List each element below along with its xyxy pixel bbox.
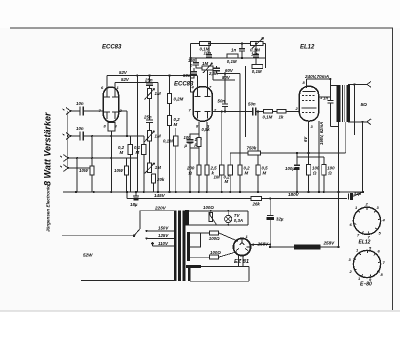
svg-text:1M: 1M	[202, 61, 208, 66]
svg-text:100Ω: 100Ω	[210, 250, 221, 255]
resistor R7 0,2M pair left	[118, 144, 132, 155]
input jack J2	[63, 133, 71, 140]
junction dots misc	[67, 42, 356, 248]
output transformer T2 primary bar	[337, 85, 341, 122]
mains wire	[62, 235, 134, 237]
svg-text:60V: 60V	[225, 68, 234, 73]
svg-text:26k: 26k	[252, 202, 261, 207]
switch S1	[133, 229, 140, 237]
resistor R2 10W	[114, 166, 129, 175]
svg-text:EZ 81: EZ 81	[234, 259, 249, 265]
svg-text:100Ω: 100Ω	[203, 205, 214, 210]
svg-text:M: M	[225, 179, 229, 184]
V3 grid dashes row1	[302, 95, 315, 97]
svg-text:180V: 180V	[288, 192, 300, 197]
wire V1 pin2 to node	[119, 110, 127, 112]
wire speaker bottom	[348, 121, 367, 123]
capacitor C18 32u second	[348, 191, 364, 200]
svg-text:110V: 110V	[158, 241, 169, 246]
wire C13 to C19	[225, 111, 253, 113]
wire 52V run lower	[115, 82, 158, 84]
svg-text:20k: 20k	[156, 177, 165, 182]
wire V2 pin4 heater	[197, 76, 199, 90]
wire R6 top	[175, 128, 177, 136]
svg-text:10n: 10n	[251, 52, 259, 57]
wire rail stub	[126, 192, 128, 198]
svg-text:M: M	[263, 171, 267, 176]
T1 tap 110V	[151, 241, 174, 246]
wire R1 column upper	[91, 136, 93, 166]
wire 60V node	[217, 68, 240, 74]
tone network top rail	[191, 43, 266, 45]
capacitor C3 18u	[130, 192, 139, 207]
svg-text:32µ: 32µ	[276, 217, 284, 222]
border top	[10, 27, 393, 29]
wire 240V run	[307, 78, 331, 80]
socket diagram EZ80	[349, 246, 386, 283]
wire R21 to V3	[286, 111, 299, 113]
junction dots jack tips	[67, 110, 72, 169]
wire R4 bottom	[169, 104, 171, 116]
capacitor C2 10n	[76, 126, 84, 141]
resistor R6 0,1M	[163, 136, 178, 146]
potentiometer P2 1M	[145, 131, 161, 142]
wire to choke	[270, 246, 294, 248]
V1 upper triode anode	[104, 90, 118, 97]
wire R5 down to bus	[169, 126, 171, 192]
T2 secondary bar	[346, 85, 350, 122]
svg-text:100µ: 100µ	[285, 166, 295, 171]
wire V2 pin3 down	[206, 122, 208, 165]
input jack J4	[60, 165, 68, 172]
resistor R26 26k dropper	[251, 197, 262, 207]
svg-text:10n: 10n	[76, 126, 84, 131]
capacitor C15 1n	[323, 96, 333, 127]
tube V2 ECC83 envelope	[193, 87, 212, 122]
socket diagram EL12	[350, 202, 386, 240]
wire J1 to V1 grid	[71, 110, 81, 112]
resistor R16 0,2M a	[224, 153, 233, 192]
V2 pin labels	[189, 85, 218, 129]
wire HV right link	[247, 211, 249, 225]
svg-text:195V, 62mA: 195V, 62mA	[319, 122, 324, 145]
svg-text:M: M	[245, 171, 249, 176]
svg-text:10W: 10W	[79, 168, 89, 173]
wire rect top	[190, 232, 209, 234]
wire V2 pin2 to C13	[212, 111, 225, 113]
speaker jack bottom	[367, 119, 371, 125]
wire V3 anode up	[306, 79, 308, 88]
potentiometer P5 1M bass	[202, 61, 213, 73]
capacitor C4 25n upper	[144, 76, 153, 89]
resistor R13 200R	[186, 165, 201, 176]
wire choke to B+ riser	[321, 246, 339, 248]
wire x158 vertical	[157, 83, 159, 193]
svg-text:268V: 268V	[257, 242, 270, 247]
resistor R10 0,1M mid	[227, 54, 238, 64]
T2 primary top lead	[330, 79, 336, 86]
border right	[392, 28, 394, 310]
svg-text:0,3A: 0,3A	[234, 218, 243, 223]
wire C2 to node	[83, 135, 144, 137]
tone network mid rail	[191, 57, 266, 59]
V3 pin labels	[295, 80, 324, 129]
wire R24 to EZ81	[219, 233, 238, 241]
resistor R20 20k	[152, 174, 165, 183]
svg-text:Jürgensen Electronic: Jürgensen Electronic	[46, 185, 51, 232]
capacitor C13 50n coupling	[218, 74, 229, 112]
wire C19 to R12	[256, 111, 264, 113]
svg-text:0,1M: 0,1M	[263, 115, 273, 120]
svg-text:p: p	[189, 63, 193, 68]
svg-text:1M: 1M	[214, 175, 220, 180]
resistor R8 0,1M pair right	[134, 144, 146, 155]
border bottom faint	[0, 310, 400, 312]
wire V2 pin7 top	[207, 70, 209, 90]
svg-text:1k: 1k	[279, 115, 284, 120]
junction dots B+ rail	[126, 152, 340, 246]
svg-text:125V: 125V	[158, 233, 169, 238]
wire HV top	[189, 210, 248, 212]
tone network right vertical	[265, 44, 267, 69]
wire cathode node	[297, 153, 324, 157]
tube V1 ECC83 envelope	[103, 87, 118, 122]
wire P1 down	[149, 99, 151, 120]
svg-text:100Ω: 100Ω	[209, 236, 220, 241]
resistor Rk1 cathode	[108, 122, 115, 131]
wire J4 run	[68, 167, 90, 169]
wire R25 to EZ81	[219, 252, 238, 258]
svg-text:10W: 10W	[114, 168, 124, 173]
wire R2 to ground bus	[126, 175, 128, 192]
svg-text:0,1M: 0,1M	[252, 69, 262, 74]
transformer T1 primary outline	[140, 211, 175, 229]
potentiometer P4 0,1M top right	[250, 38, 264, 53]
tube V3 EL12 envelope	[299, 86, 318, 121]
wire R7 to bus	[129, 155, 131, 193]
wire J3 run	[68, 157, 138, 159]
input jack J3	[60, 155, 68, 162]
tone network left vertical	[190, 44, 192, 79]
T1 core bars	[178, 211, 185, 282]
choke L1	[294, 245, 321, 250]
resistor R9 0,1M top left	[200, 42, 211, 52]
wire V1 pin6 heater up	[106, 76, 108, 91]
resistor R15 1M	[214, 112, 224, 193]
wire node x77 down	[76, 158, 78, 192]
T1 rectifier winding bar	[187, 232, 190, 261]
capacitor C11 2,5n	[208, 66, 220, 76]
V3 grid dashes row2	[302, 100, 315, 102]
svg-text:EL12: EL12	[300, 45, 315, 51]
wire x137 vertical	[136, 76, 138, 193]
svg-text:Ω: Ω	[327, 171, 332, 176]
svg-text:5Ω: 5Ω	[361, 102, 368, 108]
wire screen lead into tube	[319, 96, 331, 98]
T1 tap 125V	[145, 233, 174, 239]
wire feedback tap	[362, 122, 364, 192]
svg-text:258V: 258V	[323, 241, 336, 246]
svg-text:ECC83: ECC83	[102, 45, 122, 51]
svg-text:Ω: Ω	[312, 171, 317, 176]
resistor R22 100R	[307, 165, 320, 176]
svg-text:0,1M: 0,1M	[163, 139, 173, 144]
wire rect centre tap	[190, 233, 201, 247]
resistor R18 0,5M	[256, 112, 268, 193]
wire 80V node	[213, 70, 235, 80]
EZ81 heater leads	[238, 255, 243, 267]
rectifier V4 EZ81	[233, 234, 255, 256]
wire R4 top	[169, 76, 171, 94]
wire R7 top	[129, 136, 131, 144]
wire V1 cathode legs	[110, 131, 112, 192]
svg-text:25n: 25n	[143, 115, 152, 120]
bottom left heater line	[81, 279, 176, 281]
resistor R19 750k feedback	[230, 122, 346, 155]
resistor R24 100R anode	[209, 231, 220, 241]
wire secondary down to bus	[353, 122, 355, 135]
V3 anode bar	[303, 91, 316, 93]
svg-text:50n: 50n	[248, 102, 256, 107]
svg-text:8 Watt Verstärker: 8 Watt Verstärker	[43, 112, 53, 186]
svg-text:750k: 750k	[247, 146, 257, 151]
svg-text:50n: 50n	[218, 99, 226, 104]
svg-text:240V,70mA: 240V,70mA	[304, 74, 329, 79]
wire bend to primary bottom	[330, 126, 338, 128]
wire rect bottom	[190, 256, 209, 258]
heater wire right	[201, 265, 249, 267]
V1 pin labels	[99, 85, 123, 129]
svg-text:52V: 52V	[121, 77, 130, 82]
resistor R12 0,1M grid	[263, 110, 273, 120]
potentiometer P6 100R hum	[203, 205, 216, 225]
capacitor C17 32u first	[266, 198, 284, 247]
resistor R14 2,5k	[205, 165, 217, 192]
potentiometer P1 1M	[145, 88, 161, 99]
wire J2 to C2	[71, 135, 81, 137]
wire R8 to bus	[143, 155, 145, 193]
B+ rail 145V	[127, 197, 347, 199]
resistor R25 100R anode2	[209, 250, 221, 259]
capacitor C1 10n	[76, 101, 84, 116]
input jack J1	[63, 108, 71, 115]
T1 primary winding bar	[174, 211, 176, 281]
wire node x123 down	[126, 111, 128, 136]
svg-text:150V: 150V	[158, 226, 169, 231]
capacitor C8 10n left	[204, 46, 213, 58]
wire primary-return down	[338, 127, 340, 193]
capacitor C5 25n lower	[143, 115, 153, 131]
svg-text:32µ: 32µ	[354, 191, 362, 196]
T1 tap 150V	[145, 226, 174, 232]
wire V1 pin1 heater up	[114, 83, 116, 91]
capacitor C6 100p	[187, 134, 203, 192]
wire R8 top	[143, 136, 145, 144]
wire stray vertical	[245, 66, 247, 137]
resistor R11 0,1M right	[252, 64, 263, 74]
svg-text:M: M	[174, 122, 178, 127]
svg-text:Ω: Ω	[188, 171, 193, 176]
wire R2 leads	[126, 158, 128, 166]
T1 HV winding bar	[185, 210, 189, 225]
svg-text:E−80: E−80	[360, 282, 372, 288]
capacitor C10 10n right	[251, 46, 259, 65]
T1 heater winding bar	[186, 265, 201, 268]
svg-text:145V: 145V	[154, 193, 166, 198]
T2 secondary right line	[353, 84, 355, 122]
wire speaker top	[348, 83, 367, 85]
resistor R17 0,2M b	[238, 74, 250, 193]
svg-text:25n: 25n	[144, 78, 153, 83]
T1 heater winding side bar	[188, 265, 191, 281]
svg-text:10n: 10n	[204, 51, 212, 56]
svg-text:0,1M: 0,1M	[227, 59, 237, 64]
svg-text:0,2M: 0,2M	[174, 97, 184, 102]
wire heater bend	[248, 266, 250, 281]
wire screen to B+ vertical	[329, 79, 331, 101]
resistor R23 100R	[322, 157, 335, 192]
svg-text:1n: 1n	[231, 48, 236, 53]
svg-text:100: 100	[184, 135, 192, 140]
wire V2 grid left	[191, 78, 195, 92]
V2 cathode resistor Rk2	[197, 122, 201, 192]
capacitor C12 50n left	[183, 68, 197, 78]
wire P5 left	[196, 67, 202, 69]
svg-text:µ: µ	[184, 143, 188, 148]
wire P3 to bus	[153, 183, 155, 192]
wire C12 link	[191, 74, 195, 78]
wire HV bottom	[189, 224, 248, 226]
capacitor C19 50n series	[248, 102, 256, 116]
wire R6 down to bus	[175, 146, 177, 192]
speaker jack top	[367, 82, 371, 88]
wire R1 to ground bus	[91, 175, 93, 192]
svg-text:0,5k: 0,5k	[202, 127, 211, 132]
capacitor C9 150p	[188, 58, 199, 69]
svg-text:10n: 10n	[76, 101, 84, 106]
svg-text:1n: 1n	[323, 96, 328, 101]
capacitor C14 100u cathode	[184, 134, 199, 148]
lamp TV 0,3A	[225, 211, 243, 225]
heater return line	[190, 280, 249, 282]
svg-text:18µ: 18µ	[130, 202, 138, 207]
resistor R21 1k grid stopper	[277, 110, 286, 120]
svg-text:M: M	[120, 150, 124, 155]
wire V3 cathode down	[308, 121, 310, 192]
capacitor C16 100u cathode EL12	[285, 157, 300, 192]
svg-text:52V: 52V	[119, 70, 128, 75]
V2 lower triode anode	[195, 112, 211, 119]
potentiometer P3 1M lower	[145, 163, 162, 174]
svg-text:52W: 52W	[83, 253, 93, 258]
resistor R1 10W	[79, 166, 94, 175]
svg-text:220V: 220V	[154, 206, 167, 211]
svg-text:80V: 80V	[222, 75, 231, 80]
wire R12 to R21	[273, 111, 278, 113]
capacitor C7 1n	[231, 44, 245, 59]
resistor R5 0,2M lower	[168, 116, 181, 127]
wire P2 down to bus	[149, 141, 151, 163]
T2 primary bottom lead	[338, 122, 340, 127]
wire V3 pin right down	[318, 121, 320, 192]
junction dots ground bus	[75, 152, 340, 193]
ground bus	[63, 191, 363, 193]
wire EZ81 output	[251, 244, 271, 246]
V1 lower triode anode	[104, 112, 118, 119]
svg-text:50n: 50n	[183, 73, 191, 78]
V2 upper triode anode	[195, 90, 211, 97]
T2 core lines	[342, 85, 344, 122]
wire 52V run upper	[107, 75, 197, 77]
resistor R4 0,2M upper	[168, 94, 184, 104]
wire B+ riser	[338, 192, 340, 247]
wire jack common vertical	[67, 111, 69, 168]
wire C1 to V1	[83, 110, 103, 112]
V3 cathode line	[302, 108, 317, 113]
